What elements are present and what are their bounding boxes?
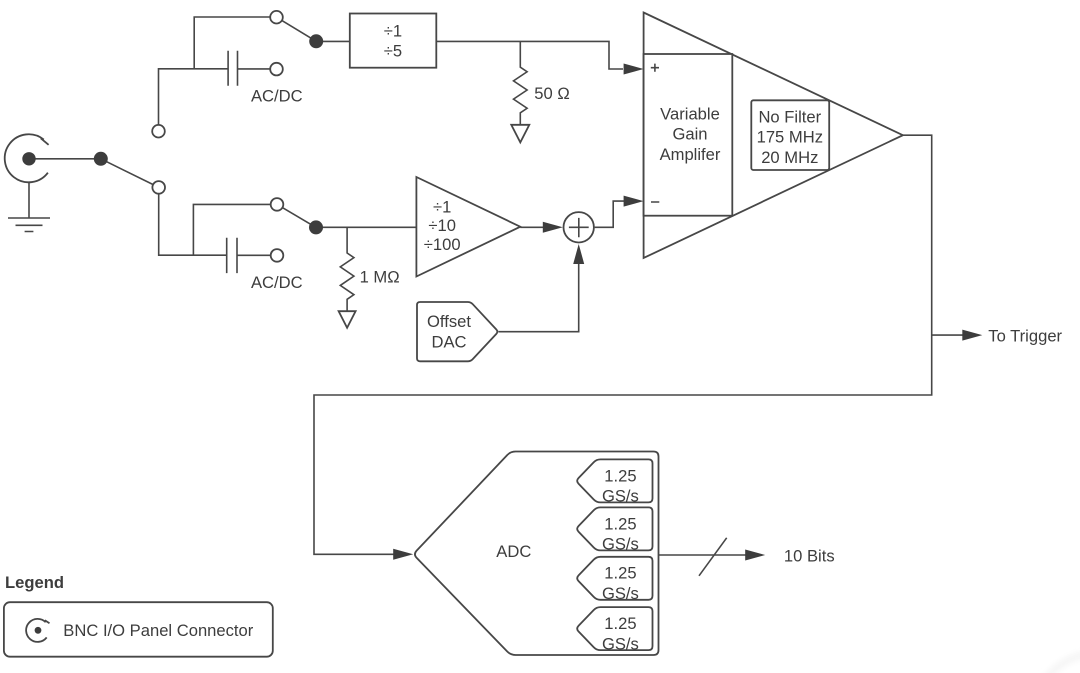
svg-text:Offset: Offset [427, 312, 471, 331]
svg-text:1 MΩ: 1 MΩ [360, 268, 400, 287]
svg-text:÷5: ÷5 [384, 41, 402, 60]
svg-text:AC/DC: AC/DC [251, 273, 303, 292]
svg-text:Gain: Gain [672, 125, 707, 144]
svg-text:GS/s: GS/s [602, 535, 639, 554]
svg-text:1.25: 1.25 [604, 514, 636, 533]
svg-text:Variable: Variable [660, 104, 720, 123]
svg-text:÷10: ÷10 [428, 216, 456, 235]
svg-text:÷1: ÷1 [384, 21, 402, 40]
svg-text:BNC I/O Panel Connector: BNC I/O Panel Connector [63, 621, 253, 640]
svg-text:Amplifer: Amplifer [660, 145, 721, 164]
svg-text:GS/s: GS/s [602, 634, 639, 653]
svg-text:1.25: 1.25 [604, 466, 636, 485]
svg-text:Legend: Legend [5, 573, 64, 592]
svg-text:÷100: ÷100 [424, 235, 461, 254]
svg-text:50 Ω: 50 Ω [534, 84, 569, 103]
svg-text:1.25: 1.25 [604, 614, 636, 633]
svg-text:10 Bits: 10 Bits [784, 547, 835, 566]
svg-text:175 MHz: 175 MHz [757, 128, 823, 147]
svg-text:To Trigger: To Trigger [988, 327, 1062, 346]
svg-text:1.25: 1.25 [604, 564, 636, 583]
svg-text:20 MHz: 20 MHz [761, 148, 818, 167]
svg-text:ADC: ADC [496, 542, 531, 561]
svg-text:DAC: DAC [431, 333, 466, 352]
svg-text:÷1: ÷1 [433, 197, 451, 216]
svg-text:No Filter: No Filter [758, 108, 821, 127]
svg-text:AC/DC: AC/DC [251, 86, 303, 105]
svg-text:GS/s: GS/s [602, 584, 639, 603]
svg-text:GS/s: GS/s [602, 487, 639, 506]
